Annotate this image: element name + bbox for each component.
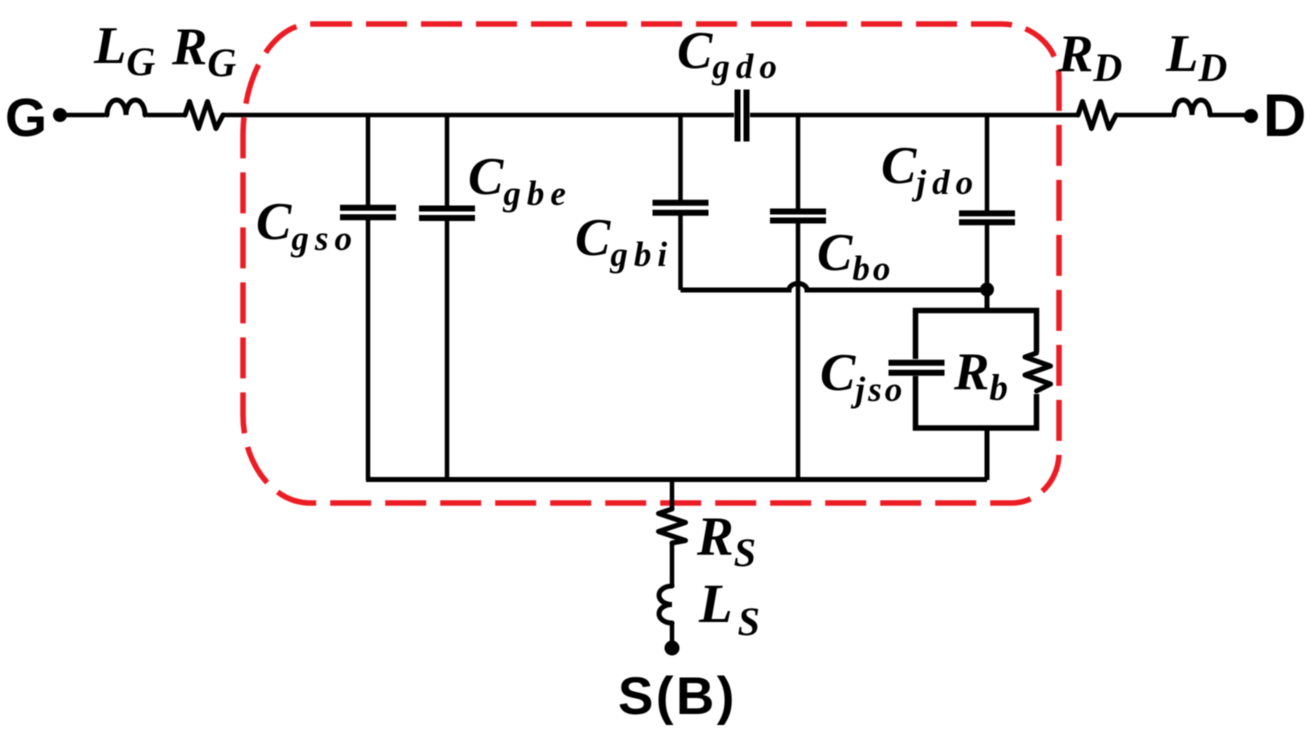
wire L_G to R_G: [147, 113, 185, 118]
capacitor C_bo branch: [770, 115, 826, 480]
wire R_G to C_gdo left plate (main gate bus): [223, 113, 734, 118]
node G terminal dot: [53, 108, 67, 122]
wire G to L_G: [60, 113, 105, 118]
wire L_S to S terminal: [670, 623, 675, 642]
inductor L_D: [1174, 100, 1210, 115]
wire R_S to L_S: [670, 543, 675, 586]
wire bus to R_S: [670, 480, 675, 509]
capacitor C_gso branch: [340, 115, 396, 480]
node D terminal dot: [1244, 109, 1258, 123]
wire node to R_b box top: [985, 290, 990, 311]
capacitor C_gbi branch: [653, 115, 709, 290]
capacitor C_gdo (series in top wire): [738, 90, 747, 142]
wire bottom source bus: [366, 477, 987, 482]
inductor L_S: [659, 586, 672, 623]
wire R_D to L_D: [1116, 113, 1172, 118]
svg-text:D: D: [1263, 82, 1306, 149]
R_b / C_jso parallel box frame: [916, 311, 1037, 429]
resistor R_b (right side of box): [1025, 353, 1051, 391]
svg-text:S(B): S(B): [618, 667, 737, 726]
node junction dot: [980, 283, 994, 297]
svg-text:G: G: [5, 88, 47, 148]
wire C_gdo to R_D: [750, 113, 1078, 118]
red dashed intrinsic-region boundary: [243, 24, 1059, 503]
wire mid bus C_gbi to node (with hop over C_bo): [681, 284, 988, 291]
capacitor C_gbe branch: [419, 115, 475, 480]
capacitor C_jso (left side of box): [889, 363, 945, 373]
node S terminal dot: [665, 641, 680, 656]
resistor R_D: [1078, 102, 1116, 129]
wire R_b box bottom to source bus: [985, 428, 990, 480]
inductor L_G: [107, 100, 145, 115]
wire L_D to D terminal: [1211, 113, 1251, 118]
resistor R_G: [185, 102, 223, 129]
resistor R_S: [659, 509, 686, 543]
capacitor C_jdo branch: [959, 115, 1015, 290]
